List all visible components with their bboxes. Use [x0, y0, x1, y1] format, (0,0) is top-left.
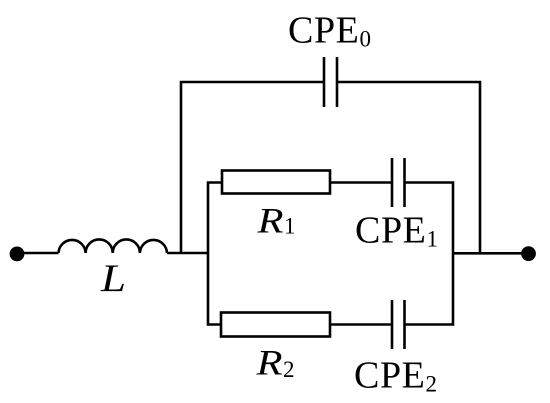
svg-text:CPE0: CPE0 [288, 10, 372, 52]
wire: parallel network right rail with stubs [405, 183, 454, 325]
node: right terminal [521, 246, 536, 261]
capacitor CPE0 (left plate) [323, 57, 326, 107]
capacitor CPE0 (right plate) [336, 57, 339, 107]
svg-text:CPE1: CPE1 [355, 210, 439, 252]
svg-text:CPE2: CPE2 [354, 354, 438, 396]
wire: top rail from CPE0 and right riser down to output node [337, 82, 480, 253]
label CPE2 [354, 354, 438, 396]
capacitor CPE1 (left plate) [391, 158, 394, 207]
wire: R2 to CPE2 [330, 323, 392, 326]
capacitor CPE2 (left plate) [391, 300, 394, 349]
label L [100, 257, 126, 300]
label R1 [256, 200, 295, 240]
svg-text:R: R [255, 343, 282, 383]
capacitor CPE1 (right plate) [403, 158, 406, 207]
wire: inductor to parallel-network left node [167, 252, 208, 255]
label CPE0 [288, 10, 372, 52]
wire: parallel network left rail with stubs [208, 183, 222, 325]
svg-text:1: 1 [284, 214, 296, 239]
wire: R1 to CPE1 [330, 181, 392, 184]
label R2 [255, 343, 294, 383]
resistor R2 [221, 313, 330, 337]
wire: top branch left riser and rail to CPE0 [181, 82, 324, 253]
wire: output node to right terminal [453, 252, 528, 255]
capacitor CPE2 (right plate) [403, 300, 406, 349]
label CPE1 [355, 210, 439, 252]
node: left terminal [10, 247, 25, 262]
inductor L [59, 239, 168, 253]
svg-text:R: R [256, 200, 283, 240]
resistor R1 [222, 171, 330, 194]
wire: left terminal to inductor [17, 252, 59, 255]
svg-text:2: 2 [283, 357, 295, 382]
svg-text:L: L [100, 257, 126, 300]
